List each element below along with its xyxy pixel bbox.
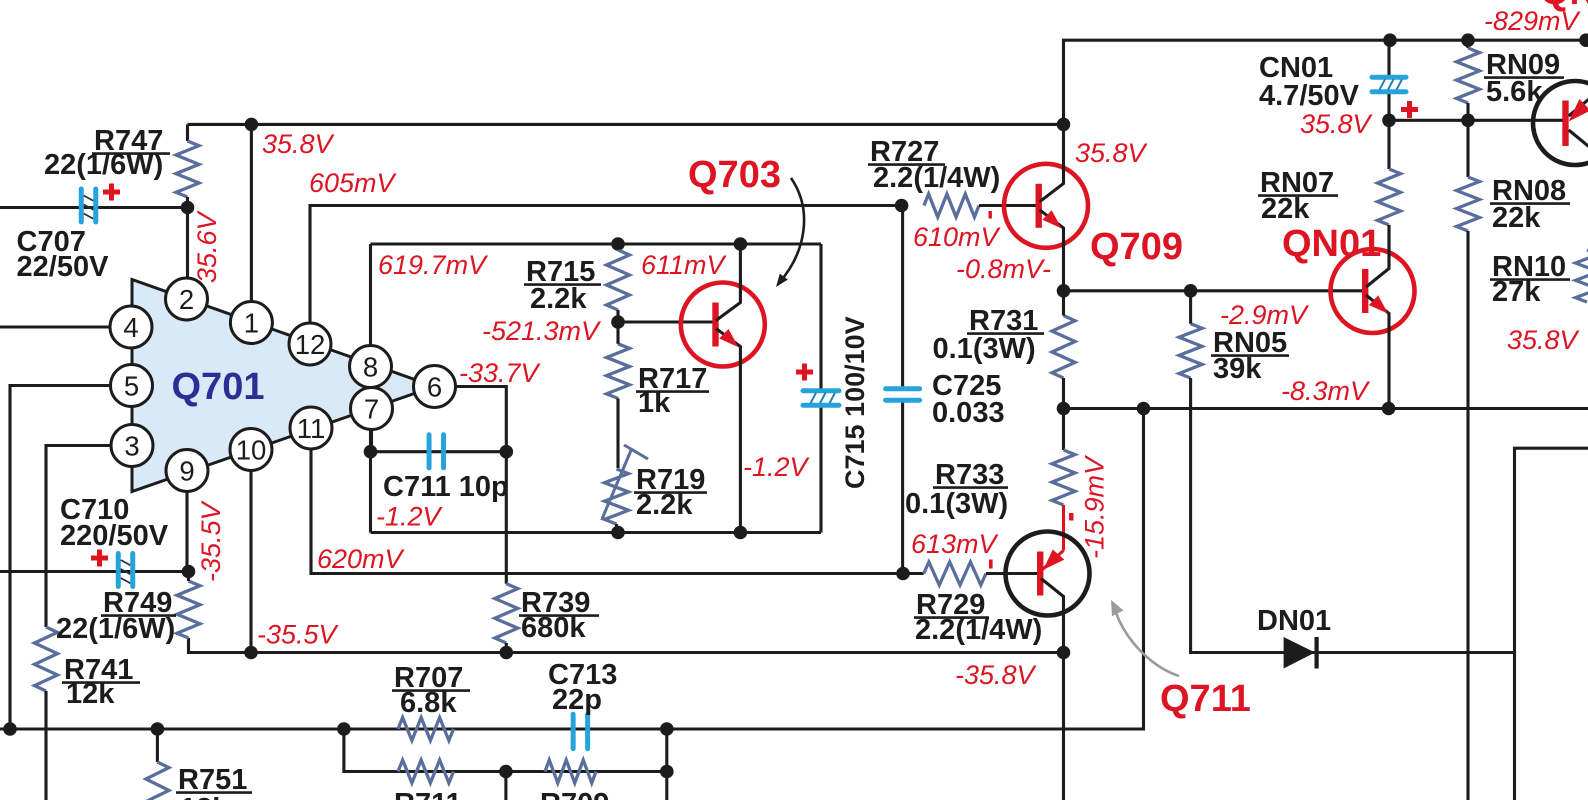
node -521.3mV label: [482, 316, 602, 346]
svg-text:Q703: Q703: [688, 154, 781, 196]
svg-text:22(1/6W): 22(1/6W): [44, 149, 163, 181]
svg-text:12: 12: [295, 329, 326, 360]
wire 605mV net: pin12 riser and rail to R727: [310, 206, 902, 325]
svg-text:11: 11: [297, 413, 326, 444]
wire CN01-RN07 riser x=1389: [1382, 40, 1396, 127]
svg-text:613mV: 613mV: [911, 529, 1000, 559]
svg-text:12k: 12k: [66, 678, 115, 710]
resistor R709 (lower branch): [540, 760, 609, 800]
wire Q709 emitter rail to QN01 base: [1057, 284, 1364, 298]
wire pin9 drop: [185, 492, 188, 572]
resistor R749: [56, 572, 200, 646]
diode DN01: [1257, 605, 1331, 669]
node -1.2V label (right of Q703): [743, 452, 811, 482]
svg-text:4: 4: [123, 312, 138, 343]
resistor R747: [44, 124, 199, 208]
variable resistor R719: [602, 445, 707, 533]
wire feedback box bottom edge: [371, 531, 822, 534]
node -35.5V label: [257, 620, 340, 650]
transistor QN03 (right edge, partially visible): [1533, 81, 1588, 165]
svg-text:-8.3mV: -8.3mV: [1281, 376, 1371, 406]
svg-text:610mV: 610mV: [913, 222, 1002, 252]
wire pin5 input and riser x=10: [10, 386, 111, 730]
wire Q711 collector to bottom edge: [1057, 646, 1071, 800]
svg-text:22k: 22k: [1492, 202, 1541, 234]
svg-text:Q709: Q709: [1090, 226, 1183, 268]
resistor R729: [914, 562, 1042, 646]
resistor R707 (on main rail): [392, 662, 470, 741]
node -0.8mV- label: [956, 254, 1051, 284]
svg-text:611mV: 611mV: [641, 250, 728, 280]
svg-text:10: 10: [236, 434, 267, 465]
svg-text:-2.9mV: -2.9mV: [1220, 300, 1310, 330]
node 613mV label and tick: [911, 529, 1000, 569]
svg-text:6: 6: [427, 371, 442, 402]
node -35.5V label (vertical at pin9): [196, 499, 226, 582]
svg-text:R751: R751: [178, 764, 247, 796]
svg-text:-35.8V: -35.8V: [955, 660, 1038, 690]
resistor R739: [495, 584, 599, 660]
wire right frame corner (y=448 to right edge, riser to bottom): [1515, 448, 1588, 800]
svg-text:5.6k: 5.6k: [1486, 76, 1543, 108]
node -8.3mV label: [1281, 376, 1371, 406]
node 35.6V (vertical): [192, 209, 222, 283]
pointer arrow from Q703 label to transistor: [776, 178, 804, 287]
svg-text:35.8V: 35.8V: [1075, 138, 1149, 168]
wire return riser x=1143.5 and bottom rail: [0, 409, 1144, 736]
junction dots on top rail: [245, 33, 1588, 131]
transistor Q711: [1006, 532, 1090, 653]
node -33.7V label: [459, 358, 542, 388]
wire feedback box top edge: [371, 242, 822, 245]
svg-text:1k: 1k: [638, 387, 671, 419]
resistor R717: [607, 322, 710, 468]
svg-text:2.2k: 2.2k: [530, 283, 587, 315]
wire feedback box left edge lower (pin7 to bottom corner): [364, 430, 378, 533]
wire base rail y=120.3 to QN03: [1389, 114, 1532, 128]
label Q703: [688, 154, 781, 196]
resistor RN10 (right edge): [1490, 250, 1588, 308]
svg-text:8: 8: [363, 351, 378, 382]
wire feedback box left edge upper (to pin8): [369, 244, 372, 346]
wire 620mV net: pin11 riser and rail to R729: [311, 449, 924, 574]
svg-text:39k: 39k: [1213, 353, 1262, 385]
capacitor C707: [17, 184, 121, 284]
wire C707 lead from left edge: [0, 206, 188, 209]
svg-text:1: 1: [244, 307, 259, 338]
node 610mV label and tick: [913, 211, 1002, 252]
svg-text:2.2k: 2.2k: [636, 489, 693, 521]
label QN03 (cut at top edge): [1540, 0, 1588, 13]
svg-text:220/50V: 220/50V: [60, 520, 169, 552]
svg-text:-35.5V: -35.5V: [257, 620, 340, 650]
resistor R741: [35, 627, 141, 800]
svg-text:3: 3: [124, 430, 139, 461]
resistor R751 and branch: [146, 729, 252, 800]
capacitor C711 and lead: [371, 435, 509, 532]
resistor RN07: [1258, 120, 1401, 267]
node -829mV label: [1484, 6, 1582, 36]
svg-text:4.7/50V: 4.7/50V: [1259, 80, 1360, 112]
label Q709: [1090, 226, 1183, 268]
svg-text:-35.5V: -35.5V: [196, 499, 226, 582]
capacitor C715 (on box right edge): [796, 316, 870, 489]
svg-text:R709: R709: [540, 788, 609, 800]
transistor Q709: [1004, 124, 1088, 290]
node 605mV label: [309, 168, 398, 198]
svg-text:35.6V: 35.6V: [192, 209, 222, 283]
wire pin4 input from left edge: [0, 325, 110, 328]
svg-text:Q711: Q711: [1160, 678, 1251, 720]
node -2.9mV label: [1220, 300, 1310, 330]
resistor RN09: [1457, 40, 1565, 120]
svg-text:2.2(1/4W): 2.2(1/4W): [873, 162, 1000, 194]
wire Q703 base lead: [611, 315, 714, 329]
label Q711: [1160, 678, 1251, 720]
wire -8.3mV rail (to right edge): [1057, 402, 1588, 416]
svg-text:5: 5: [124, 370, 139, 401]
svg-text:35.8V: 35.8V: [262, 129, 336, 159]
wire top rail riser and +35.8V top rail to right edge: [1057, 40, 1588, 131]
svg-text:35.8V: 35.8V: [1300, 109, 1374, 139]
capacitor C713 (on main rail): [548, 659, 617, 749]
node 619.7mV label: [378, 250, 489, 280]
svg-text:620mV: 620mV: [317, 544, 406, 574]
svg-text:27k: 27k: [1492, 276, 1541, 308]
svg-text:12k: 12k: [180, 793, 229, 800]
wire Q711 emitter red lead and tick: [1064, 505, 1074, 551]
wire R747 bottom to pin2 and C707 junction: [181, 201, 195, 279]
svg-text:22p: 22p: [552, 684, 602, 716]
svg-text:680k: 680k: [521, 612, 586, 644]
resistor RN05: [1179, 291, 1289, 385]
svg-text:QN01: QN01: [1282, 223, 1381, 265]
svg-text:DN01: DN01: [1257, 605, 1331, 637]
wire +35.8V top-left rail (R747 top to Q709 collector riser): [188, 123, 1064, 126]
resistor R711 (lower branch): [394, 760, 462, 800]
wire pin6 output to R739 (riser x=506): [456, 387, 514, 584]
resistor R731: [933, 291, 1076, 409]
transistor QN01: [1331, 225, 1415, 409]
capacitor CN01: [1259, 52, 1418, 118]
svg-text:-33.7V: -33.7V: [459, 358, 542, 388]
svg-text:22/50V: 22/50V: [17, 251, 110, 283]
svg-text:2.2(1/4W): 2.2(1/4W): [915, 614, 1042, 646]
wire feedback box right edge (through C715): [819, 244, 822, 533]
resistor RN08 and riser to bottom edge: [1457, 120, 1571, 800]
svg-text:R711: R711: [394, 788, 462, 800]
svg-text:6.8k: 6.8k: [400, 687, 457, 719]
capacitor C710: [60, 494, 169, 587]
svg-text:22(1/6W): 22(1/6W): [56, 613, 175, 645]
svg-text:35.8V: 35.8V: [1507, 325, 1581, 355]
svg-text:Q701: Q701: [172, 366, 265, 408]
svg-text:0.1(3W): 0.1(3W): [933, 333, 1036, 365]
svg-text:R733: R733: [935, 459, 1004, 491]
wire C710 lead from left edge: [0, 565, 195, 579]
wire pin10 drop: [249, 471, 252, 653]
svg-text:22k: 22k: [1261, 193, 1310, 225]
wire pin1 riser: [250, 124, 253, 302]
svg-text:2: 2: [179, 284, 194, 315]
capacitor C725: [886, 370, 1005, 429]
node -15.9mV label (vertical): [1080, 454, 1110, 559]
svg-text:-15.9mV: -15.9mV: [1080, 454, 1110, 559]
IC Q701 pin circles with pin numbers: [110, 278, 456, 492]
svg-text:0.1(3W): 0.1(3W): [905, 488, 1008, 520]
svg-text:-1.2V: -1.2V: [376, 502, 444, 532]
wire pin3 input and R741 branch riser: [46, 446, 111, 628]
pointer arrow from Q711 label to transistor: [1111, 600, 1179, 676]
label QN01: [1282, 223, 1381, 265]
node 620mV label: [317, 544, 406, 574]
node 35.8V label (top left): [262, 129, 336, 159]
node 611mV label: [641, 250, 728, 280]
junction dots on box bottom: [611, 526, 747, 540]
svg-text:9: 9: [179, 455, 194, 486]
resistor R733: [905, 409, 1075, 521]
svg-text:QN0: QN0: [1540, 0, 1588, 13]
node 35.8V label (CN01): [1300, 109, 1374, 139]
node -35.8V label: [955, 660, 1038, 690]
svg-text:-0.8mV-: -0.8mV-: [956, 254, 1051, 284]
svg-text:-1.2V: -1.2V: [743, 452, 811, 482]
op-amp/IC Q701 body: [132, 280, 435, 492]
node 35.8V label (at Q709 collector): [1075, 138, 1149, 168]
wire RN05 bottom riser to DN01 rail: [1191, 378, 1515, 653]
resistor R727: [868, 136, 1038, 217]
svg-text:C715 100/10V: C715 100/10V: [840, 316, 870, 489]
svg-text:C711 10p: C711 10p: [383, 471, 509, 503]
svg-text:619.7mV: 619.7mV: [378, 250, 489, 280]
svg-text:605mV: 605mV: [309, 168, 398, 198]
wire -35.5V rail (R749 bottom to Q711 collector): [189, 638, 1064, 659]
svg-text:-521.3mV: -521.3mV: [482, 316, 602, 346]
wire lower parallel branch: [344, 729, 674, 800]
svg-text:7: 7: [364, 393, 379, 424]
wire C725 riser (x=902.6): [895, 199, 910, 581]
wire pin7 stub: [370, 430, 373, 452]
node 35.8V label (right): [1507, 325, 1581, 355]
resistor R715: [524, 237, 630, 322]
svg-text:0.033: 0.033: [932, 397, 1005, 429]
transistor Q703: [681, 237, 765, 532]
